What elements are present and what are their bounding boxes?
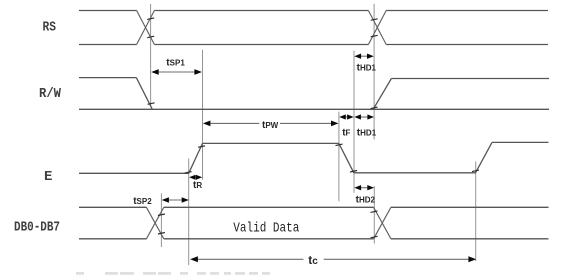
RS crossover right bbox=[368, 11, 386, 45]
svg-text:Valid Data: Valid Data bbox=[233, 220, 299, 236]
guide line at data valid x=161.4 bbox=[160, 193, 162, 247]
signal E low left segment bbox=[79, 172, 189, 174]
E falling edge bbox=[339, 143, 354, 172]
svg-text:tHD2: tHD2 bbox=[356, 194, 376, 205]
tick on E rise1 bottom corner bbox=[185, 172, 192, 174]
svg-text:tF: tF bbox=[342, 128, 350, 139]
tick marks on DB right crossover bbox=[371, 211, 378, 238]
guide line at RS/RW transition x=150.6 bbox=[150, 4, 152, 107]
arrow tHD1 bottom bbox=[354, 114, 374, 119]
signal DB0-DB7 top line bbox=[79, 206, 549, 208]
tick marks on RS left crossover bbox=[147, 18, 154, 38]
tick on E fall top corner bbox=[336, 144, 343, 146]
signal R/W high right segment bbox=[391, 78, 549, 80]
signal RS high line bbox=[79, 10, 548, 12]
svg-text:RS: RS bbox=[43, 20, 57, 36]
arrow tPW bbox=[203, 121, 339, 127]
arrow tSP1 bbox=[151, 69, 202, 75]
signal DB0-DB7 bottom line bbox=[79, 238, 549, 240]
signal R/W low line bbox=[79, 108, 549, 110]
DB crossover right bbox=[374, 207, 391, 239]
tick on E rise1 top bbox=[198, 146, 205, 148]
svg-text:tc: tc bbox=[308, 253, 318, 267]
svg-text:tSP2: tSP2 bbox=[133, 196, 152, 207]
signal E high right segment bbox=[492, 141, 549, 143]
svg-text:tSP1: tSP1 bbox=[166, 58, 185, 69]
svg-text:tPW: tPW bbox=[262, 120, 279, 131]
arrow tSP2 bbox=[162, 197, 189, 203]
tick on R/W fall bottom bbox=[148, 103, 155, 105]
R/W falling edge bbox=[136, 78, 152, 110]
arrow tF bbox=[339, 114, 354, 119]
svg-text:DB0-DB7: DB0-DB7 bbox=[14, 219, 60, 235]
R/W rising edge bbox=[373, 79, 391, 110]
guide line at E rise top x=202.5 bbox=[202, 50, 204, 180]
tick on E fall bottom bbox=[350, 171, 357, 173]
svg-text:R/W: R/W bbox=[39, 86, 62, 102]
E rising edge 2 bbox=[476, 142, 493, 172]
guide line at E rise start x=188.7 bbox=[188, 159, 190, 266]
signal E low middle segment bbox=[354, 172, 476, 174]
E rising edge 1 bbox=[189, 143, 203, 173]
arrow tHD1 top bbox=[354, 54, 374, 59]
svg-text:tR: tR bbox=[193, 180, 202, 191]
guide line at E fall end x=354 bbox=[353, 51, 355, 193]
arrow tHD2 bbox=[354, 185, 374, 190]
tick marks on RS right crossover bbox=[371, 19, 378, 37]
arrow tR bbox=[189, 175, 202, 180]
tick on R/W rise bottom bbox=[371, 107, 378, 109]
signal R/W high left segment bbox=[79, 77, 136, 79]
tick marks on DB left crossover bbox=[158, 214, 165, 234]
tick on E rise2 bottom bbox=[472, 170, 479, 172]
faint cropped caption glyph tops at page bottom bbox=[76, 272, 270, 275]
guide line at E fall start x=338.9 bbox=[338, 112, 340, 202]
guide line at data change x=374.3 lower bbox=[373, 186, 375, 244]
guide line at cycle end x=475.7 bbox=[475, 162, 477, 262]
signal RS low line bbox=[79, 44, 548, 46]
svg-text:tHD1: tHD1 bbox=[357, 128, 377, 139]
signal E high segment bbox=[203, 142, 339, 144]
svg-text:E: E bbox=[44, 169, 52, 185]
guide line at RS/RW change x=374.1 upper bbox=[373, 4, 375, 140]
DB crossover left bbox=[146, 207, 163, 239]
RS crossover left bbox=[137, 11, 155, 45]
arrow tC bbox=[190, 256, 476, 262]
svg-text:tHD1: tHD1 bbox=[357, 63, 377, 74]
